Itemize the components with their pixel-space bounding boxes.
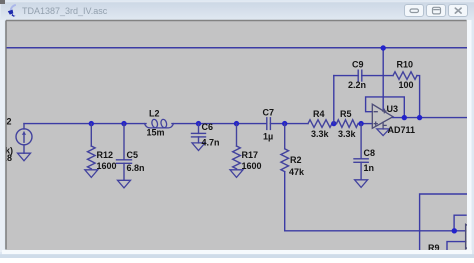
svg-text:C5: C5 — [127, 150, 139, 160]
svg-text:C9: C9 — [352, 60, 364, 70]
svg-text:R17: R17 — [242, 150, 259, 160]
wire ch2 feedback row — [420, 194, 467, 250]
node junction C8 — [358, 121, 363, 126]
wire feedback riser — [333, 76, 335, 124]
ground of I2 — [18, 153, 31, 161]
node junction R2 — [282, 121, 287, 126]
ground of C8 — [355, 180, 368, 188]
inductor L2 — [145, 119, 174, 128]
svg-text:C8: C8 — [364, 148, 376, 158]
svg-text:R5: R5 — [340, 109, 352, 119]
minimize button — [405, 5, 424, 17]
svg-text:100: 100 — [399, 80, 414, 90]
wire R10 to output drop — [417, 76, 420, 118]
current source I2 — [16, 124, 32, 154]
window frame bottom white strip — [2, 250, 472, 254]
wire main row segment 1 — [24, 123, 146, 125]
svg-text:R4: R4 — [313, 109, 325, 119]
svg-text:2.2n: 2.2n — [348, 80, 366, 90]
svg-text:U3: U3 — [387, 104, 399, 114]
client sunken border left — [5, 21, 7, 250]
wire top supply rail — [7, 47, 467, 49]
capacitor C8 — [354, 124, 368, 180]
resistor R17 — [233, 124, 241, 169]
capacitor C9 — [358, 70, 362, 81]
resistor R2 — [281, 124, 289, 172]
node junction output A — [402, 115, 407, 120]
svg-text:3.3k: 3.3k — [311, 129, 330, 139]
wire main row segment 5 — [358, 123, 372, 125]
svg-text:3.3k: 3.3k — [338, 129, 357, 139]
ground of U3 — [377, 129, 390, 136]
node junction ch2 — [452, 228, 457, 233]
svg-text:R12: R12 — [97, 150, 114, 160]
maximize button — [427, 5, 446, 17]
window frame right white strip — [467, 20, 472, 254]
node junction on supply rail — [381, 45, 386, 50]
wire main row segment 2 — [172, 123, 267, 125]
capacitor C7 — [267, 118, 271, 130]
wire feedback row left — [334, 75, 358, 77]
wire feedback row mid — [362, 75, 393, 77]
svg-text:4.7n: 4.7n — [202, 138, 220, 148]
wire main row segment 3 — [270, 123, 308, 125]
svg-text:1600: 1600 — [242, 161, 262, 171]
wire feedback box — [366, 97, 405, 118]
node junction R12 — [89, 121, 94, 126]
capacitor C6 — [192, 124, 206, 143]
resistor R12 — [88, 124, 96, 169]
svg-text:C7: C7 — [263, 108, 275, 118]
wire bottom row — [285, 230, 466, 232]
ground of C6 — [192, 143, 205, 151]
svg-text:AD711: AD711 — [388, 125, 416, 135]
node junction output B — [417, 115, 422, 120]
wire main row segment 4 — [332, 123, 337, 125]
window frame bottom blue strip — [0, 254, 474, 258]
resistor R5 — [337, 120, 359, 128]
client sunken border top — [6, 20, 467, 22]
desktop corner fragment top-left — [0, 0, 5, 4]
window frame left light strip — [0, 20, 5, 252]
svg-text:6.8n: 6.8n — [127, 163, 145, 173]
resistor R10 — [393, 72, 417, 80]
resistor R4 — [308, 120, 332, 128]
capacitor C5 — [117, 124, 132, 181]
svg-text:TDA1387_3rd_IV.asc: TDA1387_3rd_IV.asc — [22, 6, 108, 16]
wire output row — [393, 117, 467, 119]
node junction R17 — [234, 121, 239, 126]
node junction R4-R5 — [331, 121, 336, 126]
svg-text:C6: C6 — [202, 122, 214, 132]
wire ch2 noninv input — [447, 242, 466, 250]
ground of C5 — [118, 180, 131, 188]
LTspice icon — [8, 5, 16, 17]
ground of R17 — [230, 170, 243, 178]
svg-text:15m: 15m — [147, 128, 165, 138]
wire supply drop to U3 V+ — [382, 48, 384, 110]
ground of R12 — [85, 170, 98, 178]
op-amp U3 — [372, 104, 393, 129]
svg-text:1µ: 1µ — [263, 132, 273, 142]
svg-text:R10: R10 — [397, 60, 414, 70]
svg-text:1600: 1600 — [97, 161, 117, 171]
svg-text:47k: 47k — [289, 167, 305, 177]
wire ch2 box — [454, 215, 466, 231]
svg-text:L2: L2 — [149, 109, 160, 119]
svg-text:1n: 1n — [364, 163, 375, 173]
op-amp U2 partial — [466, 224, 474, 248]
svg-text:R2: R2 — [290, 155, 302, 165]
node junction C5 — [121, 121, 126, 126]
wire R2 bottom drop — [284, 172, 286, 231]
close button — [449, 5, 468, 17]
title bar — [1, 1, 474, 20]
node junction C6 — [196, 121, 201, 126]
